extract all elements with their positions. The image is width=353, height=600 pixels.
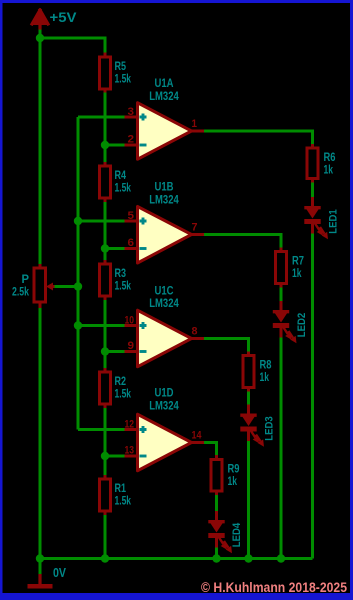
wire R8 to LED3 bbox=[247, 392, 250, 406]
wire U1A minus input bbox=[105, 144, 125, 147]
resistor R1 bbox=[100, 475, 132, 515]
svg-text:R8: R8 bbox=[260, 360, 272, 372]
svg-text:5: 5 bbox=[128, 210, 135, 222]
svg-text:LED4: LED4 bbox=[231, 522, 243, 547]
wire LED3 to bus bbox=[247, 441, 250, 559]
svg-text:U1A: U1A bbox=[155, 78, 174, 90]
junction rail2 wiper bbox=[74, 282, 82, 290]
svg-text:© H.Kuhlmann 2018-2025: © H.Kuhlmann 2018-2025 bbox=[201, 580, 347, 595]
node divider tap 4 bbox=[101, 452, 109, 460]
svg-text:U1B: U1B bbox=[155, 182, 174, 194]
svg-text:1.5k: 1.5k bbox=[115, 496, 132, 508]
node divider tap 3 bbox=[101, 347, 109, 355]
svg-text:6: 6 bbox=[128, 237, 135, 249]
resistor R5 bbox=[100, 53, 132, 93]
svg-text:R9: R9 bbox=[228, 464, 240, 476]
node divider tap 1 bbox=[101, 141, 109, 149]
wire U1D plus input bbox=[78, 428, 125, 431]
power +5V bbox=[32, 9, 77, 28]
inverting input mark - bbox=[140, 247, 147, 250]
wire LED4 to bus bbox=[215, 547, 218, 559]
ground bbox=[28, 565, 67, 589]
svg-text:LED1: LED1 bbox=[328, 209, 340, 234]
wire U1A plus input bbox=[78, 116, 125, 119]
junction bus LED2 bbox=[277, 554, 285, 562]
wire divider R4-R3 bbox=[104, 202, 107, 260]
resistor R6 bbox=[307, 144, 336, 183]
svg-text:7: 7 bbox=[192, 222, 198, 234]
wire U1C minus input bbox=[105, 350, 125, 353]
wire divider R1 to bus bbox=[104, 515, 107, 559]
wire rail2 wiper bus bbox=[77, 117, 80, 430]
svg-text:P: P bbox=[22, 274, 30, 286]
wire U1B output to R7 bbox=[204, 235, 281, 248]
svg-text:LM324: LM324 bbox=[149, 91, 179, 103]
junction bus divider bbox=[101, 554, 109, 562]
noninverting input mark + bbox=[140, 322, 147, 329]
svg-text:U1C: U1C bbox=[155, 286, 174, 298]
svg-text:1k: 1k bbox=[324, 165, 334, 177]
svg-text:0V: 0V bbox=[53, 565, 66, 580]
noninverting input mark + bbox=[140, 114, 147, 121]
junction +5V rail bbox=[36, 34, 44, 42]
svg-text:8: 8 bbox=[192, 326, 198, 338]
svg-text:1.5k: 1.5k bbox=[115, 183, 132, 195]
node divider tap 2 bbox=[101, 244, 109, 252]
op-amp U1D bbox=[125, 388, 205, 471]
inverting input mark - bbox=[140, 455, 147, 458]
wire U1A output to R6 bbox=[204, 131, 313, 144]
svg-text:R6: R6 bbox=[324, 152, 336, 164]
svg-text:3: 3 bbox=[128, 106, 135, 118]
wire rail1 bottom (pot to bus) bbox=[39, 308, 42, 574]
svg-text:1.5k: 1.5k bbox=[115, 74, 132, 86]
svg-text:LED2: LED2 bbox=[296, 313, 308, 338]
svg-text:R1: R1 bbox=[115, 483, 127, 495]
LED LED4 bbox=[208, 511, 243, 553]
wire U1C output to R8 bbox=[204, 339, 249, 352]
LED LED2 bbox=[273, 301, 308, 343]
wire R9 to LED4 bbox=[215, 495, 218, 511]
wire U1C plus input bbox=[78, 324, 125, 327]
svg-text:2: 2 bbox=[128, 134, 135, 146]
resistor R9 bbox=[211, 455, 240, 495]
svg-text:10: 10 bbox=[125, 315, 135, 327]
resistor R2 bbox=[100, 368, 132, 408]
noninverting input mark + bbox=[140, 218, 147, 225]
inverting input mark - bbox=[140, 144, 147, 147]
svg-text:9: 9 bbox=[128, 340, 135, 352]
LED LED3 bbox=[240, 405, 275, 447]
svg-text:LED3: LED3 bbox=[264, 416, 276, 441]
wire R6 to LED1 bbox=[311, 183, 314, 198]
LED LED1 bbox=[304, 197, 339, 239]
wire R7 to LED2 bbox=[280, 288, 283, 302]
svg-text:LM324: LM324 bbox=[149, 298, 179, 310]
potentiometer P 2.5k bbox=[12, 264, 55, 308]
svg-text:R2: R2 bbox=[115, 376, 127, 388]
wire LED1 to bus bbox=[311, 234, 314, 559]
resistor R4 bbox=[100, 162, 132, 202]
resistor R8 bbox=[243, 352, 272, 392]
wire U1B plus input bbox=[78, 220, 125, 223]
noninverting input mark + bbox=[140, 426, 147, 433]
svg-text:13: 13 bbox=[125, 445, 135, 457]
op-amp U1A bbox=[125, 78, 205, 159]
junction bus ground bbox=[36, 554, 44, 562]
svg-text:1: 1 bbox=[192, 118, 198, 130]
svg-text:1.5k: 1.5k bbox=[115, 281, 132, 293]
svg-text:R5: R5 bbox=[115, 61, 127, 73]
svg-text:U1D: U1D bbox=[155, 388, 174, 400]
svg-text:12: 12 bbox=[125, 419, 135, 431]
wire U1B minus input bbox=[105, 247, 125, 250]
svg-text:R3: R3 bbox=[115, 268, 127, 280]
wire +5V to divider top bbox=[40, 38, 105, 53]
wire divider R3-R2 bbox=[104, 300, 107, 368]
wire LED2 to bus bbox=[280, 337, 283, 559]
svg-text:+5V: +5V bbox=[50, 9, 78, 25]
svg-text:R4: R4 bbox=[115, 170, 127, 182]
svg-text:2.5k: 2.5k bbox=[12, 287, 29, 299]
wire rail1 top (+5V to pot) bbox=[39, 26, 42, 268]
resistor R7 bbox=[276, 248, 305, 288]
op-amp U1B bbox=[125, 182, 205, 264]
wire pot wiper to rail2 bbox=[54, 285, 78, 288]
op-amp U1C bbox=[125, 286, 205, 367]
svg-text:R7: R7 bbox=[292, 256, 304, 268]
wire divider R2-R1 bbox=[104, 408, 107, 475]
wire U1D minus input bbox=[105, 455, 125, 458]
svg-text:1k: 1k bbox=[228, 476, 238, 488]
wire ground bus bbox=[40, 557, 313, 560]
svg-text:14: 14 bbox=[192, 430, 203, 442]
svg-text:LM324: LM324 bbox=[149, 195, 179, 207]
junction rail2 U1C bbox=[74, 321, 82, 329]
svg-text:1k: 1k bbox=[260, 372, 270, 384]
svg-text:1.5k: 1.5k bbox=[115, 389, 132, 401]
svg-text:1k: 1k bbox=[292, 268, 302, 280]
wire U1D output to R9 bbox=[204, 443, 217, 456]
svg-text:LM324: LM324 bbox=[149, 401, 179, 413]
wire divider R5-R4 bbox=[104, 93, 107, 163]
inverting input mark - bbox=[140, 350, 147, 353]
junction bus LED3 bbox=[244, 554, 252, 562]
resistor R3 bbox=[100, 260, 132, 300]
junction rail2 U1B bbox=[74, 217, 82, 225]
junction bus LED4 bbox=[212, 554, 220, 562]
